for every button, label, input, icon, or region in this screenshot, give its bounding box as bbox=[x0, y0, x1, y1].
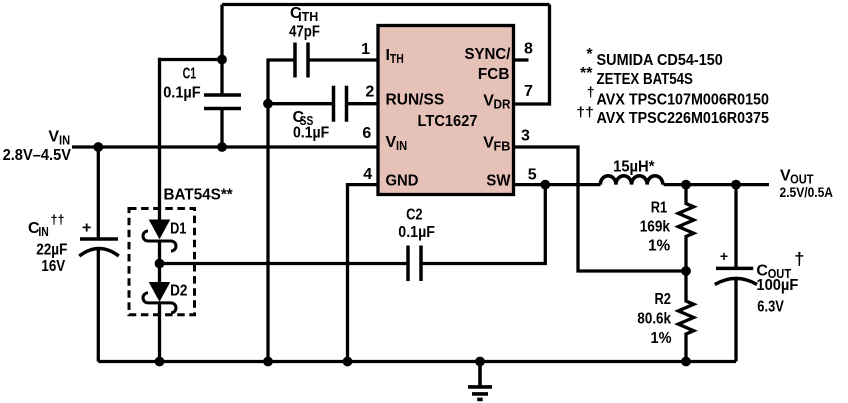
wire top rail bbox=[222, 3, 550, 6]
svg-text:FB: FB bbox=[494, 140, 511, 154]
wire pin2 RUN/SS bbox=[347, 102, 379, 105]
wire D2 cathode to rail bbox=[158, 303, 161, 362]
resistor R1 bbox=[678, 185, 693, 271]
junction dot VIN/C1 bbox=[217, 142, 227, 152]
svg-text:6.3V: 6.3V bbox=[757, 299, 784, 316]
wire inductor to VOUT bbox=[664, 183, 770, 186]
svg-text:0.1µF: 0.1µF bbox=[293, 125, 329, 142]
capacitor CIN polarized bbox=[79, 239, 119, 256]
inductor L1 15uH bbox=[600, 176, 663, 185]
wire CIN top lead bbox=[97, 147, 100, 239]
wire C1 bottom bbox=[220, 109, 223, 148]
svg-text:D1: D1 bbox=[170, 220, 186, 237]
svg-text:7: 7 bbox=[524, 83, 533, 100]
svg-text:SUMIDA CD54-150: SUMIDA CD54-150 bbox=[597, 52, 723, 69]
wire CIN bottom lead bbox=[97, 249, 100, 362]
wire SW pin5 to inductor bbox=[514, 183, 601, 186]
junction dot D1-D2 midpoint bbox=[155, 259, 165, 269]
junction dot SW/C2 bbox=[540, 180, 550, 190]
svg-text:4: 4 bbox=[363, 166, 372, 183]
capacitor C2 bbox=[408, 246, 421, 282]
junction dot rail/GND pin bbox=[343, 357, 353, 367]
wire pin3 VFB feedback to R1/R2 junction bbox=[514, 147, 687, 271]
wire pin8 SYNC/FCB stub bbox=[514, 58, 529, 61]
svg-text:C1: C1 bbox=[183, 65, 197, 82]
svg-text:LTC1627: LTC1627 bbox=[418, 113, 478, 130]
wire pin1 ITH bbox=[308, 58, 378, 61]
svg-text:80.6k: 80.6k bbox=[637, 311, 671, 328]
BAT54S dashed box bbox=[129, 209, 195, 315]
svg-text:3: 3 bbox=[521, 128, 530, 145]
svg-text:6: 6 bbox=[362, 125, 371, 142]
svg-text:8: 8 bbox=[524, 41, 533, 58]
svg-text:RUN/SS: RUN/SS bbox=[386, 92, 445, 109]
svg-text:TH: TH bbox=[390, 52, 404, 66]
svg-text:169k: 169k bbox=[640, 219, 670, 236]
capacitor CITH bbox=[295, 43, 308, 78]
svg-text:AVX TPSC226M016R0375: AVX TPSC226M016R0375 bbox=[597, 110, 770, 127]
svg-text:5: 5 bbox=[528, 167, 537, 184]
wire left vertical to D1 bbox=[158, 58, 161, 221]
diode D1 triangle bbox=[149, 220, 171, 240]
junction dot CSS left bbox=[263, 99, 273, 109]
svg-text:2: 2 bbox=[365, 84, 374, 101]
svg-text:0.1µF: 0.1µF bbox=[163, 85, 201, 102]
svg-text:**: ** bbox=[580, 65, 593, 82]
junction dot rail/R2 bbox=[681, 357, 691, 367]
svg-text:GND: GND bbox=[386, 173, 419, 190]
wire C1 top vertical bbox=[220, 5, 223, 96]
junction dot C1 top bbox=[217, 55, 227, 65]
svg-text:100µF: 100µF bbox=[756, 277, 798, 294]
svg-text:SYNC/: SYNC/ bbox=[465, 46, 511, 63]
svg-text:0.1µF: 0.1µF bbox=[398, 224, 435, 241]
junction dot rail/ground symbol bbox=[475, 357, 485, 367]
wire ground rail bbox=[98, 360, 736, 363]
ground symbol bbox=[468, 362, 492, 400]
svg-text:ZETEX BAT54S: ZETEX BAT54S bbox=[597, 71, 694, 88]
capacitor COUT polarized bbox=[715, 268, 757, 284]
capacitor CSS bbox=[334, 86, 347, 122]
wire CSS left bbox=[268, 102, 334, 105]
junction dot rail/CSS ground bbox=[263, 357, 273, 367]
junction dot VIN/CIN bbox=[93, 142, 103, 152]
capacitor C1 bbox=[204, 95, 241, 109]
svg-text:22µF: 22µF bbox=[36, 242, 67, 259]
svg-text:IN: IN bbox=[396, 139, 407, 153]
svg-text:C2: C2 bbox=[406, 207, 423, 224]
junction dot VOUT/R1 bbox=[681, 180, 691, 190]
svg-text:V: V bbox=[48, 128, 59, 145]
wire diode midpoint to C2 bbox=[160, 262, 409, 265]
svg-text:1%: 1% bbox=[648, 238, 670, 255]
wire COUT bottom lead bbox=[734, 279, 737, 362]
wire CITH corner to ground rail bbox=[268, 60, 295, 362]
svg-text:DR: DR bbox=[494, 98, 511, 112]
svg-text:D2: D2 bbox=[170, 282, 187, 299]
wire VIN rail bbox=[72, 145, 378, 148]
svg-text:BAT54S**: BAT54S** bbox=[164, 187, 234, 204]
svg-text:+: + bbox=[720, 248, 728, 264]
svg-text:IN: IN bbox=[38, 225, 48, 239]
diode D2 triangle bbox=[149, 282, 171, 302]
svg-text:††: †† bbox=[576, 104, 594, 120]
svg-text:15µH*: 15µH* bbox=[613, 159, 655, 176]
svg-text:1%: 1% bbox=[651, 330, 672, 347]
wire COUT top lead bbox=[734, 185, 737, 269]
svg-text:AVX TPSC107M006R0150: AVX TPSC107M006R0150 bbox=[597, 92, 770, 109]
IC U1 LTC1627 body bbox=[378, 26, 514, 195]
wire pin4 GND down to rail bbox=[348, 185, 379, 362]
svg-text:IN: IN bbox=[59, 133, 70, 147]
wire pin7 VDR up to top rail bbox=[514, 5, 550, 105]
svg-text:2.8V–4.5V: 2.8V–4.5V bbox=[3, 147, 72, 164]
wire D1 cathode to D2 anode bbox=[158, 241, 161, 283]
svg-text:ITH: ITH bbox=[298, 10, 318, 24]
junction dot R1/R2 feedback bbox=[681, 266, 691, 276]
wire y59 horizontal bbox=[160, 58, 223, 61]
svg-text:16V: 16V bbox=[41, 258, 65, 275]
junction dot VOUT/COUT bbox=[731, 180, 741, 190]
svg-text:FCB: FCB bbox=[478, 66, 510, 83]
svg-text:47pF: 47pF bbox=[289, 24, 320, 41]
svg-text:+: + bbox=[82, 220, 91, 237]
svg-text:SW: SW bbox=[486, 173, 511, 190]
svg-text:1: 1 bbox=[361, 41, 370, 58]
svg-text:*: * bbox=[586, 46, 593, 63]
diode D2 schottky cathode bbox=[143, 293, 176, 313]
svg-text:†: † bbox=[587, 84, 595, 100]
svg-text:V: V bbox=[386, 134, 397, 151]
resistor R2 bbox=[678, 271, 693, 362]
svg-text:R1: R1 bbox=[651, 200, 667, 217]
svg-text:††: †† bbox=[51, 212, 65, 227]
svg-text:†: † bbox=[794, 249, 804, 269]
wire C2 right up to SW bbox=[421, 185, 545, 264]
svg-text:2.5V/0.5A: 2.5V/0.5A bbox=[780, 185, 834, 200]
diode D1 schottky cathode bbox=[143, 231, 176, 251]
svg-text:R2: R2 bbox=[655, 291, 671, 308]
junction dot rail/diodes bbox=[155, 357, 165, 367]
